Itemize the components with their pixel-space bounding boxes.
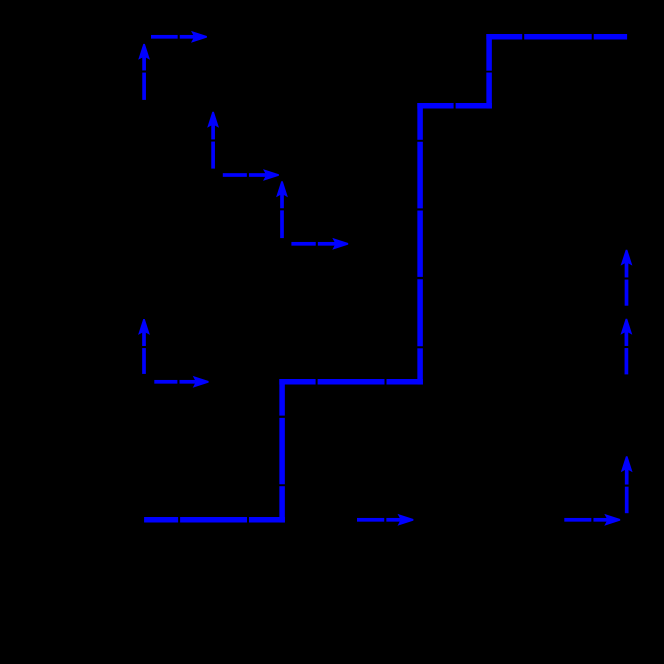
up arrow A9	[621, 250, 633, 306]
right arrow A12	[357, 514, 413, 526]
right arrow A4	[223, 169, 279, 181]
right arrow A8	[154, 376, 208, 388]
dashed step path segment R6 (vertical)	[279, 379, 285, 523]
up arrow A7	[138, 319, 150, 374]
dashed step path segment R1 (top horizontal)	[486, 34, 627, 40]
up arrow A11	[621, 456, 633, 513]
right arrow A6	[291, 238, 348, 250]
dashed step path segment R5 (middle horizontal)	[279, 379, 423, 385]
right arrow A13	[564, 514, 620, 526]
up arrow A1	[138, 44, 150, 100]
up arrow A3	[207, 112, 219, 169]
right arrow A2	[151, 31, 207, 43]
dashed step path segment R3 (horizontal)	[417, 103, 492, 109]
dashed step path segment R2 (vertical)	[486, 34, 492, 109]
up arrow A10	[621, 319, 633, 375]
dashed step path segment R7 (bottom horizontal)	[144, 517, 285, 523]
dashed step path segment R4 (long vertical)	[417, 103, 423, 385]
up arrow A5	[276, 181, 288, 238]
